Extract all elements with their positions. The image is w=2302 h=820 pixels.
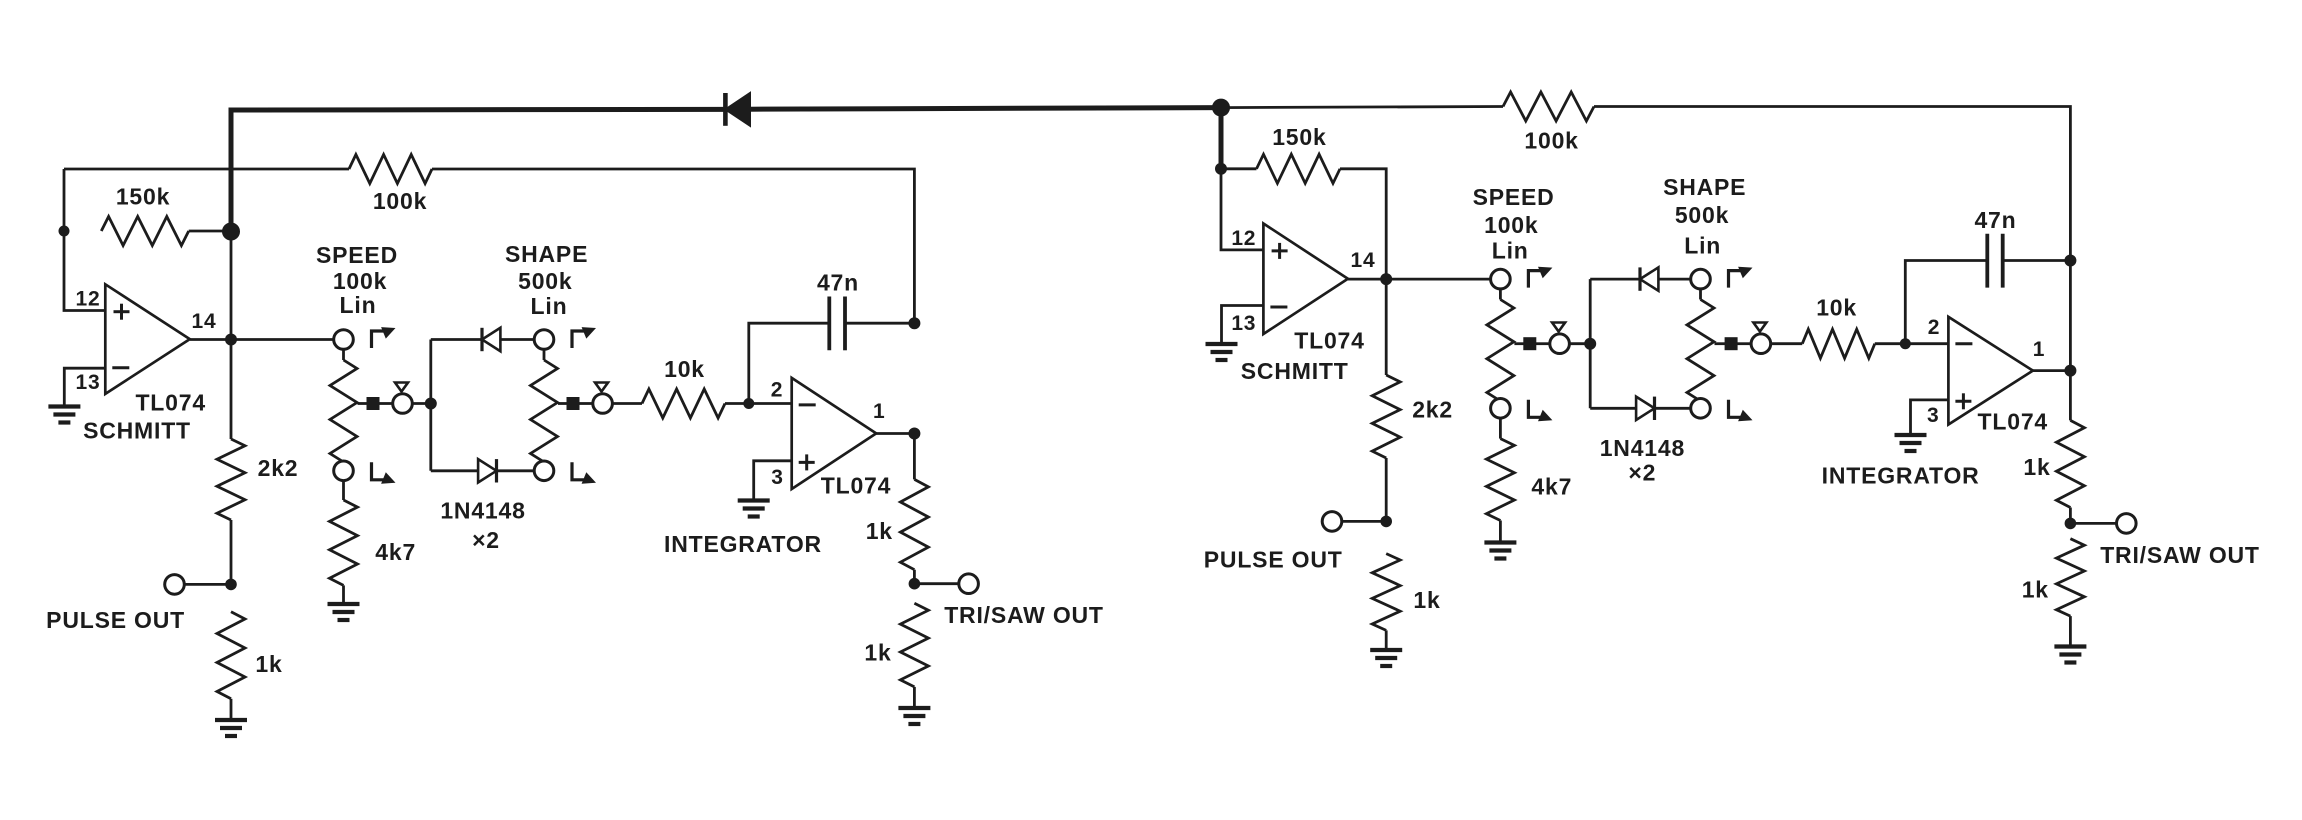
junction: integrator A -input node <box>743 398 754 409</box>
junction: 47n / output rail (osc B) <box>2064 255 2076 267</box>
ground (4k7 osc A) <box>328 602 360 606</box>
wire: 47n to output rail (osc A) <box>845 322 914 325</box>
junction: bridge node (osc A) <box>425 398 437 410</box>
svg-text:1k: 1k <box>255 651 282 677</box>
svg-text:×2: ×2 <box>1628 460 1656 486</box>
symbol: SPEED bottom terminal arrow (osc A) <box>372 462 386 480</box>
resistor 4k7 (osc A) <box>330 500 358 585</box>
wire: osc B 100k to right rail down to cap node <box>1594 107 2070 261</box>
wire: 150k left stub (osc B) <box>1221 167 1257 170</box>
terminal: SHAPE wiper (osc B) <box>1751 334 1771 354</box>
symbol: SHAPE top terminal arrow (osc B) <box>1729 271 1743 288</box>
symbol: wiper marker (SHAPE osc A) <box>595 383 608 392</box>
wire: bottom diode to SHAPE bottom (osc B) <box>1655 407 1692 410</box>
wire: 2k2 to pulse node (osc B) <box>1385 458 1388 521</box>
wire: 4k7 to ground (osc B) <box>1499 521 1502 543</box>
wire: SPEED wiper stub (osc B) <box>1514 342 1524 345</box>
ground (integrator B +input) <box>1895 433 1927 437</box>
diode 1N4148 bottom (osc A) <box>478 459 496 482</box>
svg-text:1N4148: 1N4148 <box>440 498 525 524</box>
wire: 1k to ground (osc B) <box>2069 616 2072 646</box>
wire: tri/saw node to terminal (osc B) <box>2070 522 2117 525</box>
symbol: wiper marker (SPEED osc B) <box>1552 323 1565 332</box>
symbol: SHAPE bottom terminal arrow (osc A) <box>572 462 586 480</box>
wire: pulse node to PULSE OUT terminal <box>184 583 232 586</box>
wire: integrator B +input (pin 3) to ground <box>1911 400 1949 434</box>
svg-text:×2: ×2 <box>472 527 500 553</box>
svg-text:1: 1 <box>2033 338 2045 361</box>
svg-text:500k: 500k <box>1675 202 1729 228</box>
potentiometer SHAPE 500k Lin (osc B) track <box>1687 300 1714 402</box>
wire: -input node up to 47n (osc A) <box>749 323 830 403</box>
symbol: SHAPE top terminal arrow (osc A) <box>572 331 586 348</box>
wire: 4k7 to ground <box>342 585 345 603</box>
terminal: SHAPE wiper (osc A) <box>593 394 613 414</box>
ground (osc A pulse divider) <box>215 718 247 722</box>
svg-text:500k: 500k <box>518 268 572 294</box>
symbol: wiper marker (SPEED osc A) <box>395 383 408 392</box>
wire: diode bridge left vertical (osc A) <box>429 340 432 471</box>
diode D1 sync 1N4148 (filled) <box>725 93 750 126</box>
resistor 150k (osc B hysteresis) <box>1257 154 1341 183</box>
ground (4k7 osc B) <box>1484 540 1516 544</box>
wire: 1k to ground (osc B) <box>1385 630 1388 649</box>
ground (osc B tri/saw divider) <box>2054 644 2086 648</box>
wire: SPEED wiper to diode bridge node (osc B) <box>1569 342 1591 345</box>
wire: output rail down to 2k2 <box>230 231 233 439</box>
wire: schmitt B +input vertical (pin 12) <box>1221 169 1263 250</box>
svg-text:SHAPE: SHAPE <box>1663 174 1746 200</box>
svg-text:2: 2 <box>771 379 783 402</box>
svg-text:150k: 150k <box>116 184 170 210</box>
ground (schmitt B -input) <box>1206 342 1238 346</box>
junction: tri/saw out node (osc B) <box>2065 518 2077 530</box>
svg-text:13: 13 <box>1231 312 1256 335</box>
potentiometer SPEED 100k Lin (osc A) track <box>330 360 357 462</box>
junction: bridge node (osc B) <box>1584 338 1596 350</box>
svg-text:10k: 10k <box>664 356 705 382</box>
wire: 100k to right rail and down to cap node <box>432 169 914 323</box>
resistor 150k (osc A hysteresis) <box>101 217 188 246</box>
junction: sync node at osc B <box>1212 99 1230 117</box>
svg-text:SPEED: SPEED <box>1473 184 1555 210</box>
svg-text:1: 1 <box>873 400 885 423</box>
junction: integrator B -input node <box>1900 338 1911 349</box>
wire: schmitt A output (pin 14) to SPEED pot <box>190 338 335 341</box>
op-amp U1C TL074 SCHMITT (osc B) <box>1263 224 1348 335</box>
svg-text:1k: 1k <box>864 640 891 666</box>
resistor 100k (osc A feedback) <box>349 155 432 184</box>
wire: sync net thick vertical (osc A output rail to sync line) <box>231 109 725 231</box>
wire: 1k to ground (osc A) <box>913 687 916 708</box>
ground (osc B pulse divider) <box>1370 648 1402 652</box>
svg-text:10k: 10k <box>1816 295 1857 321</box>
capacitor 47n (osc B integrator) <box>1985 234 1989 288</box>
wire: integrator A +input (pin 3) to ground <box>754 461 792 500</box>
wire: SHAPE wiper stub (osc A) <box>558 402 568 405</box>
symbol: SHAPE bottom terminal arrow (osc B) <box>1729 400 1743 418</box>
wire: bridge to bottom diode (osc B) <box>1590 407 1636 410</box>
wire: schmitt B -input (pin 13) to ground <box>1222 306 1264 344</box>
wire: SHAPE wiper to 10k (osc A) <box>612 402 642 405</box>
svg-text:Lin: Lin <box>1492 238 1529 264</box>
wire: bridge to bottom diode (osc A) <box>431 469 478 472</box>
terminal: SHAPE pot bottom (osc A) <box>534 461 554 481</box>
terminal: TRI/SAW OUT (osc A) <box>959 574 979 594</box>
ground (integrator A +input) <box>738 498 770 502</box>
resistor 100k (osc B feedback) <box>1503 92 1594 121</box>
op-amp U1D TL074 INTEGRATOR (osc B) <box>1948 317 2033 425</box>
diode 1N4148 bottom (osc B) <box>1636 397 1654 420</box>
wire: sync node down to schmitt B (thick) <box>1219 108 1224 169</box>
wire: SPEED bottom to 4k7 (osc B) <box>1499 417 1502 438</box>
svg-text:PULSE OUT: PULSE OUT <box>1204 547 1343 573</box>
svg-text:TRI/SAW OUT: TRI/SAW OUT <box>944 602 1104 628</box>
wire: bridge to top diode (osc B) <box>1590 278 1640 281</box>
wire: schmitt A -input (pin 13) to ground <box>64 368 105 406</box>
wire: 1k to ground <box>230 699 233 720</box>
svg-text:100k: 100k <box>1484 212 1538 238</box>
junction: 47n / output rail (osc A) <box>908 317 920 329</box>
wire: SHAPE wiper stub (osc B) <box>1715 342 1726 345</box>
svg-text:TL074: TL074 <box>821 473 891 499</box>
capacitor 47n (osc A integrator) <box>827 297 831 351</box>
svg-text:SHAPE: SHAPE <box>505 241 588 267</box>
junction: schmitt A output node <box>225 334 237 346</box>
wire: schmitt A +input net (left vertical, pin 12) <box>64 169 105 311</box>
resistor 1k (osc B tri/saw divider lower) <box>2056 539 2084 616</box>
svg-text:SCHMITT: SCHMITT <box>83 418 191 444</box>
potentiometer SHAPE 500k Lin (osc A) track <box>531 360 558 462</box>
wire: osc A integrator-output to schmitt +input (100k net, left segment) <box>64 168 349 171</box>
wire: SPEED wiper to terminal circle <box>379 402 394 405</box>
junction: schmitt A output / sync node (big) <box>222 223 240 241</box>
junction: pulse out node (osc B) <box>1380 516 1392 528</box>
resistor 1k (osc A tri/saw divider lower) <box>900 603 928 687</box>
svg-text:TL074: TL074 <box>135 390 205 416</box>
potentiometer SPEED 100k Lin (osc B) track <box>1487 300 1514 402</box>
wire: top diode to SHAPE top (osc A) <box>500 338 535 341</box>
wire: tri/saw node to terminal (osc A) <box>914 582 959 585</box>
terminal: SHAPE pot top (osc A) <box>534 330 554 350</box>
svg-text:TL074: TL074 <box>1294 328 1364 354</box>
junction: schmitt B output node <box>1380 273 1392 285</box>
svg-text:14: 14 <box>192 310 217 333</box>
svg-text:Lin: Lin <box>340 292 377 318</box>
svg-text:3: 3 <box>771 466 783 489</box>
svg-text:INTEGRATOR: INTEGRATOR <box>1822 463 1980 489</box>
junction: 150k left node (osc A) <box>59 226 70 237</box>
wire: bottom diode to SHAPE bottom (osc A) <box>497 469 536 472</box>
symbol: SPEED wiper contact square (osc B) <box>1523 337 1536 350</box>
wire: 47n to output rail (osc B) <box>2003 259 2071 262</box>
terminal: SPEED pot top (osc B) <box>1491 269 1511 289</box>
wire: pulse node to PULSE OUT terminal (osc B) <box>1341 520 1386 523</box>
svg-text:13: 13 <box>76 371 101 394</box>
resistor 4k7 (osc B) <box>1486 439 1514 521</box>
wire: schmitt B output (pin 14) to SPEED pot (osc B) <box>1348 278 1492 281</box>
wire: SHAPE wiper to 10k (osc B) <box>1770 342 1802 345</box>
wire: 1k to tri/saw node (osc B) <box>2069 508 2072 524</box>
resistor 1k (osc B tri/saw divider upper) <box>2056 420 2084 507</box>
wire: diode bridge left vertical (osc B) <box>1589 279 1592 408</box>
svg-text:47n: 47n <box>1974 207 2016 233</box>
ground (osc A tri/saw divider) <box>898 706 930 710</box>
junction: tri/saw out node (osc A) <box>909 578 921 590</box>
terminal: SPEED pot top (osc A) <box>334 330 354 350</box>
wire: 10k to integrator -input (pin 2, osc A) <box>725 402 792 405</box>
wire: 150k right segment to output rail <box>189 230 231 233</box>
symbol: wiper marker (SHAPE osc B) <box>1753 323 1766 332</box>
resistor 1k (osc A pulse divider lower) <box>217 612 245 699</box>
svg-text:Lin: Lin <box>1684 233 1721 259</box>
resistor 1k (osc A tri/saw divider upper) <box>900 479 928 569</box>
wire: 10k to integrator -input (pin 2, osc B) <box>1875 342 1949 345</box>
terminal: SHAPE pot bottom (osc B) <box>1691 399 1711 419</box>
diode 1N4148 top (osc A) <box>482 328 500 351</box>
svg-text:PULSE OUT: PULSE OUT <box>46 607 185 633</box>
diode 1N4148 top (osc B) <box>1640 267 1658 290</box>
svg-text:TL074: TL074 <box>1978 409 2048 435</box>
svg-text:4k7: 4k7 <box>375 539 416 565</box>
op-amp U1A TL074 SCHMITT (osc A) <box>105 284 190 394</box>
symbol: SPEED top terminal arrow (osc B) <box>1528 271 1542 288</box>
wire: 1k to tri/saw node (osc A) <box>913 570 916 584</box>
symbol: SHAPE wiper contact square (osc B) <box>1725 337 1738 350</box>
resistor 1k (osc B pulse divider lower) <box>1372 554 1400 631</box>
resistor 2k2 (osc B pulse divider) <box>1372 375 1400 458</box>
svg-text:2k2: 2k2 <box>1412 397 1453 423</box>
svg-text:SPEED: SPEED <box>316 242 398 268</box>
wire: integrator A output (pin 1) to rail <box>876 432 914 435</box>
op-amp U1B TL074 INTEGRATOR (osc A) <box>792 378 877 489</box>
resistor 2k2 (osc A pulse divider) <box>217 439 245 520</box>
svg-text:4k7: 4k7 <box>1531 474 1572 500</box>
svg-text:150k: 150k <box>1272 124 1326 150</box>
symbol: SPEED wiper contact square (osc A) <box>367 397 380 410</box>
svg-text:3: 3 <box>1927 404 1939 427</box>
terminal: SPEED pot bottom (osc B) <box>1491 399 1511 419</box>
svg-text:1k: 1k <box>1413 587 1440 613</box>
wire: SPEED bottom to 4k7 <box>342 480 345 500</box>
svg-text:2: 2 <box>1928 316 1940 339</box>
wire: SPEED wiper to terminal circle (osc B) <box>1535 342 1550 345</box>
symbol: SPEED top terminal arrow (osc A) <box>372 331 386 348</box>
terminal: SPEED wiper (osc A) <box>393 394 413 414</box>
symbol: SHAPE wiper contact square (osc A) <box>567 397 580 410</box>
wire: bridge to top diode (osc A) <box>431 338 482 341</box>
wire: rail down to 1k (osc B) <box>2069 371 2072 421</box>
wire: top diode to SHAPE top (osc B) <box>1658 278 1691 281</box>
svg-text:Lin: Lin <box>531 293 568 319</box>
wire: 2k2 to pulse node <box>230 520 233 584</box>
junction: pulse out node (osc A) <box>225 579 237 591</box>
wire: SPEED wiper to diode bridge node <box>412 402 431 405</box>
wire: sync net from D1 anode to osc B node <box>750 108 1221 110</box>
terminal: SPEED pot bottom (osc A) <box>334 461 354 481</box>
svg-text:SCHMITT: SCHMITT <box>1241 358 1349 384</box>
symbol: SPEED bottom terminal arrow (osc B) <box>1528 400 1542 418</box>
wire: output node down to 2k2 (osc B) <box>1385 279 1388 375</box>
wire: SHAPE wiper to terminal circle (osc A) <box>579 402 594 405</box>
resistor 10k (osc A integrator input) <box>642 389 725 418</box>
terminal: SHAPE pot top (osc B) <box>1691 269 1711 289</box>
terminal: TRI/SAW OUT (osc B) <box>2117 514 2137 534</box>
wire: SHAPE wiper to terminal circle (osc B) <box>1737 342 1752 345</box>
terminal: SPEED wiper (osc B) <box>1550 334 1570 354</box>
svg-text:12: 12 <box>76 288 101 311</box>
junction: integrator A output node <box>908 428 920 440</box>
svg-text:1k: 1k <box>2022 577 2049 603</box>
svg-text:100k: 100k <box>373 188 427 214</box>
junction: schmitt B +input / 150k node <box>1215 163 1227 175</box>
wire: SPEED wiper stub (osc A) <box>358 402 369 405</box>
wire: -input node up to 47n (osc B) <box>1905 261 1987 344</box>
svg-text:12: 12 <box>1231 227 1256 250</box>
terminal: PULSE OUT (osc B) <box>1322 512 1342 532</box>
svg-text:100k: 100k <box>1524 128 1578 154</box>
wire: rail cap node to output node (osc B) <box>2069 261 2072 371</box>
svg-text:1N4148: 1N4148 <box>1600 435 1685 461</box>
svg-text:TRI/SAW OUT: TRI/SAW OUT <box>2100 542 2260 568</box>
svg-text:1k: 1k <box>2023 454 2050 480</box>
svg-text:INTEGRATOR: INTEGRATOR <box>664 531 822 557</box>
wire: rail down to 1k (osc A) <box>913 434 916 480</box>
junction: integrator B output node <box>2064 365 2076 377</box>
wire: 150k to schmitt B output node <box>1340 169 1386 279</box>
terminal: PULSE OUT (osc A) <box>165 575 185 595</box>
svg-text:14: 14 <box>1351 249 1376 272</box>
svg-text:1k: 1k <box>866 518 893 544</box>
resistor 10k (osc B integrator input) <box>1802 329 1875 358</box>
svg-text:2k2: 2k2 <box>258 455 299 481</box>
svg-text:100k: 100k <box>333 268 387 294</box>
wire: integrator B output (pin 1) to rail <box>2033 369 2070 372</box>
wire: sync node to osc B 100k <box>1221 107 1503 108</box>
svg-text:47n: 47n <box>817 270 859 296</box>
ground (schmitt A -input) <box>48 404 80 408</box>
